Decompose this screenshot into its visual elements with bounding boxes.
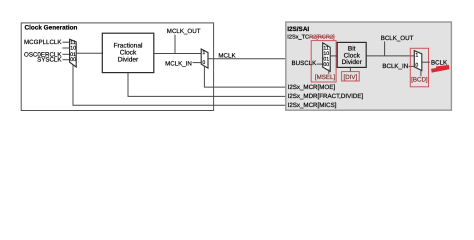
svg-text:MCLK_OUT: MCLK_OUT bbox=[167, 28, 201, 35]
wire BCLK_OUT label to net bbox=[384, 41, 386, 56]
svg-text:[BCD]: [BCD] bbox=[411, 76, 428, 83]
svg-text:I2Sx_MCR[MICS]: I2Sx_MCR[MICS] bbox=[288, 102, 337, 109]
wire Bit Clock Divider select stub to DIV bbox=[349, 67, 351, 71]
wire SYSCLK to mux M1 input 00 bbox=[62, 59, 69, 61]
svg-text:I2Sx_MCR[MOE]: I2Sx_MCR[MOE] bbox=[288, 84, 336, 91]
annotation red box around mux M3 and MSEL bbox=[311, 41, 336, 82]
annotation red scribble under BCLK bbox=[431, 66, 450, 73]
wire Fractional Clock Divider output to mux M2 input 1 bbox=[154, 53, 201, 55]
svg-text:MCGPLLCLK: MCGPLLCLK bbox=[24, 39, 62, 46]
wire MCGPLLCLK to mux M1 input 11 bbox=[62, 41, 69, 43]
svg-text:BCLK: BCLK bbox=[431, 59, 448, 66]
wire BCLK_IN to mux M4 input 0 bbox=[409, 65, 415, 67]
svg-text:BUSCLK: BUSCLK bbox=[292, 60, 318, 67]
wire mux M3 output to Bit Clock Divider bbox=[330, 55, 337, 57]
wire MCLK_IN to mux M2 input 0 bbox=[193, 62, 202, 64]
svg-text:00: 00 bbox=[323, 62, 329, 68]
svg-text:Divider: Divider bbox=[118, 57, 139, 64]
wire Bit Clock Divider output to mux M4 input 1 bbox=[366, 55, 414, 57]
annotation red box DIV bbox=[342, 72, 360, 81]
svg-text:00: 00 bbox=[70, 57, 76, 63]
svg-text:MCLK: MCLK bbox=[218, 52, 236, 59]
wire stub mux M1 input 10 bbox=[62, 47, 69, 49]
svg-text:1: 1 bbox=[415, 53, 418, 59]
svg-text:SYSCLK: SYSCLK bbox=[37, 57, 62, 64]
svg-text:BCLK_OUT: BCLK_OUT bbox=[381, 35, 414, 42]
svg-text:[DIV]: [DIV] bbox=[344, 74, 358, 81]
mux M4 (BCLK pin direction BCD) bbox=[414, 51, 422, 71]
wire mux M4 select stub to BCD bbox=[420, 70, 422, 77]
wire Fractional Clock Divider FRACT,DIVIDE control down and right bbox=[128, 73, 287, 97]
svg-text:0: 0 bbox=[415, 62, 418, 68]
svg-text:1: 1 bbox=[202, 50, 205, 56]
mux M3 (bit clock source select MSEL) bbox=[323, 43, 331, 72]
wire mux M1 select MICS down and right bbox=[73, 65, 287, 106]
Clock Generation box bbox=[21, 23, 213, 111]
svg-text:Clock Generation: Clock Generation bbox=[25, 25, 78, 32]
wire MCLK_OUT label to net bbox=[174, 35, 176, 54]
svg-text:0: 0 bbox=[202, 60, 205, 66]
wire OSC0ERCLK to mux M1 input 01 bbox=[62, 53, 69, 55]
svg-text:MCLK_IN: MCLK_IN bbox=[165, 61, 192, 68]
svg-text:I2S/SAI: I2S/SAI bbox=[287, 26, 309, 33]
svg-text:Fractional: Fractional bbox=[114, 43, 143, 50]
Fractional Clock Divider U1 bbox=[102, 33, 154, 72]
Bit Clock Divider U2 bbox=[337, 42, 366, 67]
svg-text:I2Sx_MDR[FRACT,DIVIDE]: I2Sx_MDR[FRACT,DIVIDE] bbox=[288, 93, 364, 100]
wire mux M1 output to Fractional Clock Divider bbox=[76, 52, 102, 54]
svg-text:[MSEL]: [MSEL] bbox=[315, 74, 336, 81]
wire BUSCLK to mux M3 input 00 bbox=[317, 63, 323, 65]
wire mux M2 select MOE down and right bbox=[204, 66, 286, 87]
wire MCLK net from mux M2 to I2S mux M3 input 01 bbox=[208, 58, 323, 60]
svg-text:BCLK_IN: BCLK_IN bbox=[382, 63, 408, 70]
wire mux M4 output BCLK bbox=[422, 61, 430, 63]
I2S/SAI box bbox=[286, 22, 452, 110]
mux M1 (MCLK source select MICS) bbox=[70, 39, 77, 67]
svg-text:10: 10 bbox=[70, 46, 76, 52]
annotation red box around mux M4 and BCD bbox=[410, 48, 428, 87]
svg-text:Divider: Divider bbox=[342, 59, 363, 66]
svg-text:I2Sx_TCR2[RCR2]: I2Sx_TCR2[RCR2] bbox=[287, 33, 335, 40]
wire mux M3 select stub bbox=[328, 70, 330, 74]
svg-text:Clock: Clock bbox=[120, 50, 137, 57]
mux M2 (MCLK pin direction MOE) bbox=[201, 49, 208, 68]
